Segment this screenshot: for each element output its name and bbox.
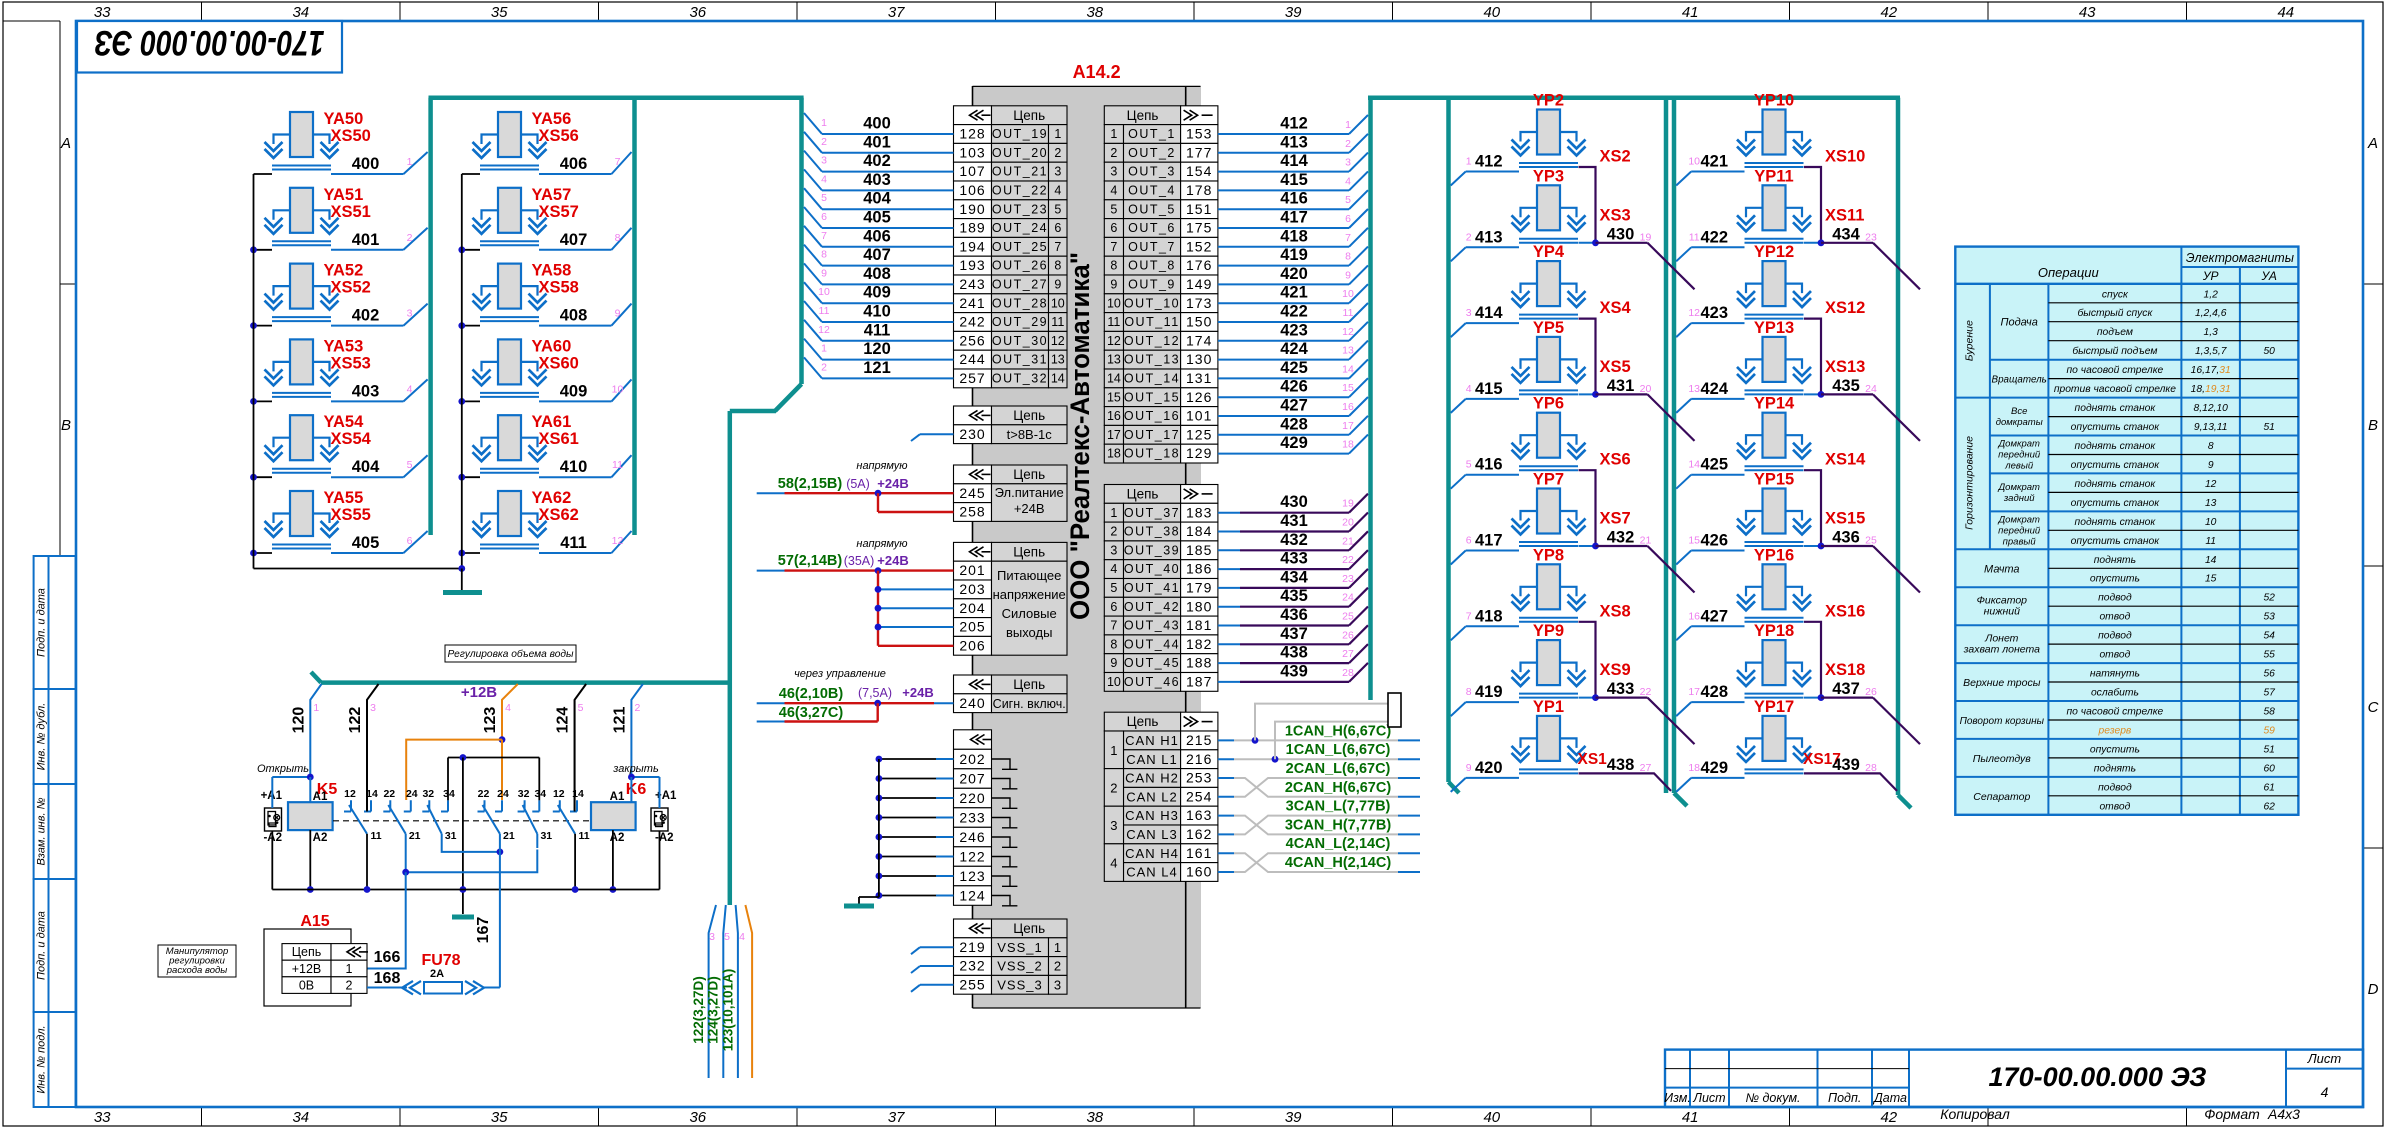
svg-text:35: 35	[491, 1109, 508, 1126]
svg-text:2: 2	[821, 136, 827, 148]
svg-text:37: 37	[888, 1109, 905, 1126]
svg-text:16,17,31: 16,17,31	[2191, 365, 2231, 376]
svg-text:10: 10	[818, 286, 830, 298]
svg-text:216: 216	[1186, 751, 1212, 767]
svg-text:Силовые: Силовые	[1002, 606, 1057, 621]
svg-text:205: 205	[959, 619, 985, 635]
svg-text:50: 50	[2263, 346, 2275, 357]
svg-text:1: 1	[1110, 127, 1117, 141]
svg-text:2: 2	[1110, 780, 1117, 795]
svg-text:244: 244	[959, 351, 985, 367]
svg-text:YP9: YP9	[1533, 622, 1564, 640]
svg-text:130: 130	[1186, 351, 1212, 367]
svg-text:XS13: XS13	[1825, 358, 1865, 376]
svg-text:3: 3	[1054, 977, 1061, 992]
svg-text:опустить станок: опустить станок	[2071, 498, 2161, 509]
svg-text:417: 417	[1280, 209, 1308, 227]
svg-text:11: 11	[1107, 315, 1120, 329]
svg-text:выходы: выходы	[1006, 625, 1052, 640]
svg-text:Формат: Формат	[2204, 1106, 2260, 1122]
svg-text:быстрый подъем: быстрый подъем	[2072, 345, 2157, 357]
svg-text:YA61: YA61	[532, 413, 572, 431]
svg-text:CAN H1: CAN H1	[1125, 733, 1179, 748]
svg-text:424: 424	[1280, 340, 1308, 358]
svg-text:44: 44	[2277, 4, 2294, 21]
svg-text:Цепь: Цепь	[1013, 921, 1045, 936]
svg-text:166: 166	[374, 949, 401, 966]
svg-text:186: 186	[1186, 561, 1212, 577]
svg-text:OUT_39: OUT_39	[1124, 543, 1180, 557]
svg-text:125: 125	[1186, 426, 1212, 442]
svg-text:401: 401	[863, 133, 891, 151]
svg-text:12: 12	[1107, 334, 1121, 348]
svg-text:8: 8	[821, 249, 827, 261]
svg-text:YP7: YP7	[1533, 471, 1564, 489]
svg-text:3: 3	[821, 155, 827, 167]
svg-text:7: 7	[1054, 240, 1061, 254]
svg-text:9: 9	[1466, 762, 1472, 774]
svg-text:4: 4	[1466, 383, 1472, 395]
svg-text:122: 122	[347, 707, 364, 734]
svg-text:Поворот корзины: Поворот корзины	[1960, 716, 2045, 727]
svg-text:поднять станок: поднять станок	[2075, 517, 2157, 528]
svg-text:YA62: YA62	[532, 489, 572, 507]
svg-text:опустить: опустить	[2090, 574, 2140, 585]
svg-text:11: 11	[612, 459, 623, 471]
svg-text:419: 419	[1475, 683, 1503, 701]
svg-text:408: 408	[560, 307, 588, 325]
svg-text:Цепь: Цепь	[1013, 677, 1045, 692]
svg-text:OUT_30: OUT_30	[992, 334, 1048, 348]
svg-text:1: 1	[1345, 119, 1351, 131]
svg-text:4: 4	[505, 702, 511, 714]
svg-text:Вращатель: Вращатель	[1992, 375, 2047, 386]
svg-text:OUT_5: OUT_5	[1128, 202, 1176, 216]
svg-text:OUT_26: OUT_26	[992, 259, 1048, 273]
svg-text:захват лонета: захват лонета	[1963, 644, 2040, 656]
svg-text:4: 4	[1110, 562, 1117, 576]
svg-text:Питающее: Питающее	[997, 568, 1061, 583]
svg-text:120: 120	[863, 340, 891, 358]
svg-text:Лист: Лист	[1692, 1091, 1725, 1105]
svg-text:149: 149	[1186, 276, 1212, 292]
svg-text:7: 7	[1110, 619, 1117, 633]
svg-text:6: 6	[1110, 600, 1117, 614]
svg-text:419: 419	[1280, 246, 1308, 264]
svg-text:436: 436	[1280, 606, 1308, 624]
svg-text:(5А): (5А)	[846, 477, 870, 491]
svg-text:422: 422	[1700, 228, 1728, 246]
svg-text:УР: УР	[2202, 269, 2219, 283]
svg-text:189: 189	[959, 220, 985, 236]
svg-text:OUT_27: OUT_27	[992, 278, 1048, 292]
svg-text:432: 432	[1607, 529, 1635, 547]
svg-text:2: 2	[821, 361, 827, 373]
svg-text:опустить станок: опустить станок	[2071, 536, 2161, 547]
svg-text:54: 54	[2263, 631, 2275, 642]
svg-text:Копировал: Копировал	[1940, 1106, 2010, 1122]
svg-text:416: 416	[1280, 190, 1308, 208]
svg-text:YA54: YA54	[324, 413, 365, 431]
svg-text:+A1: +A1	[655, 790, 677, 802]
svg-text:420: 420	[1475, 759, 1503, 777]
svg-text:OUT_19: OUT_19	[992, 127, 1048, 141]
svg-text:Домкрат: Домкрат	[1997, 482, 2040, 493]
svg-text:передний: передний	[1998, 525, 2041, 536]
svg-text:правый: правый	[2003, 536, 2037, 547]
svg-text:OUT_10: OUT_10	[1124, 296, 1180, 310]
svg-text:32: 32	[422, 788, 434, 800]
svg-text:XS54: XS54	[331, 430, 372, 448]
svg-text:150: 150	[1186, 314, 1212, 330]
svg-text:против часовой стрелке: против часовой стрелке	[2054, 384, 2176, 395]
svg-text:24: 24	[497, 788, 509, 800]
svg-text:170-00.00.000 ЭЗ: 170-00.00.000 ЭЗ	[1989, 1062, 2207, 1092]
svg-text:253: 253	[1186, 770, 1212, 786]
svg-text:178: 178	[1186, 182, 1212, 198]
svg-text:3CAN_L(7,77В): 3CAN_L(7,77В)	[1286, 799, 1391, 815]
svg-text:123: 123	[959, 868, 985, 884]
svg-text:YP8: YP8	[1533, 546, 1564, 564]
svg-text:передний: передний	[1998, 450, 2041, 461]
svg-text:183: 183	[1186, 504, 1212, 520]
svg-text:YA57: YA57	[532, 186, 572, 204]
svg-text:11: 11	[819, 305, 830, 317]
svg-text:22: 22	[1342, 554, 1354, 566]
svg-text:22: 22	[383, 788, 395, 800]
svg-text:XS51: XS51	[331, 203, 371, 221]
svg-text:427: 427	[1280, 397, 1308, 415]
svg-text:37: 37	[888, 4, 905, 21]
svg-text:38: 38	[1086, 4, 1103, 21]
svg-text:6: 6	[1466, 535, 1472, 547]
svg-text:YP3: YP3	[1533, 167, 1564, 185]
svg-text:31: 31	[445, 830, 457, 842]
svg-text:нижний: нижний	[1984, 606, 2020, 618]
svg-text:107: 107	[959, 163, 985, 179]
svg-text:K6: K6	[626, 781, 647, 798]
svg-text:11: 11	[1689, 231, 1700, 243]
svg-text:51: 51	[2263, 744, 2274, 755]
svg-text:431: 431	[1280, 512, 1308, 530]
svg-text:204: 204	[959, 600, 985, 616]
svg-text:27: 27	[1342, 648, 1354, 660]
svg-text:YA56: YA56	[532, 110, 572, 128]
svg-text:3: 3	[1110, 818, 1117, 833]
svg-text:+24В: +24В	[902, 685, 933, 700]
svg-text:254: 254	[1186, 788, 1212, 804]
svg-text:51: 51	[2263, 422, 2274, 433]
svg-text:152: 152	[1186, 238, 1212, 254]
svg-text:3: 3	[1466, 307, 1472, 319]
svg-text:опустить станок: опустить станок	[2071, 460, 2161, 471]
svg-text:OUT_9: OUT_9	[1128, 278, 1176, 292]
svg-text:отвод: отвод	[2099, 801, 2130, 812]
svg-text:28: 28	[1865, 762, 1877, 774]
svg-text:122: 122	[959, 848, 985, 864]
svg-text:VSS_3: VSS_3	[997, 977, 1042, 992]
svg-text:Цепь: Цепь	[292, 945, 321, 959]
svg-text:12: 12	[1342, 326, 1354, 338]
svg-text:D: D	[2368, 981, 2379, 998]
svg-text:XS2: XS2	[1600, 148, 1631, 166]
svg-text:243: 243	[959, 276, 985, 292]
svg-text:Лист: Лист	[2307, 1051, 2342, 1066]
svg-text:быстрый спуск: быстрый спуск	[2077, 307, 2153, 319]
svg-text:CAN H3: CAN H3	[1125, 808, 1179, 823]
svg-text:XS7: XS7	[1600, 510, 1631, 528]
svg-text:по часовой стрелке: по часовой стрелке	[2067, 707, 2164, 718]
svg-text:XS6: XS6	[1600, 451, 1631, 469]
svg-text:2: 2	[1466, 231, 1472, 243]
svg-text:245: 245	[959, 485, 985, 501]
svg-text:22: 22	[1640, 686, 1652, 698]
svg-text:натянуть: натянуть	[2090, 669, 2140, 680]
svg-text:409: 409	[863, 284, 891, 302]
svg-text:Верхние тросы: Верхние тросы	[1963, 677, 2041, 689]
svg-text:+24В: +24В	[877, 553, 908, 568]
svg-text:8: 8	[1110, 637, 1117, 651]
svg-text:YP1: YP1	[1533, 698, 1564, 716]
svg-text:отвод: отвод	[2099, 650, 2130, 661]
svg-text:поднять станок: поднять станок	[2075, 403, 2157, 414]
svg-text:411: 411	[560, 534, 587, 552]
svg-text:21: 21	[1342, 535, 1354, 547]
svg-text:22: 22	[478, 788, 490, 800]
svg-text:9,13,11: 9,13,11	[2194, 422, 2228, 433]
svg-text:5: 5	[724, 931, 730, 943]
svg-text:1,3,5,7: 1,3,5,7	[2195, 346, 2228, 357]
svg-text:2: 2	[1110, 146, 1117, 160]
svg-text:11: 11	[2205, 536, 2216, 547]
svg-text:62: 62	[2263, 801, 2275, 812]
svg-text:36: 36	[689, 4, 706, 21]
svg-text:24: 24	[1342, 592, 1354, 604]
svg-text:417: 417	[1475, 532, 1503, 550]
svg-text:1: 1	[1466, 156, 1472, 168]
svg-text:Сепаратор: Сепаратор	[1973, 791, 2030, 803]
svg-text:OUT_1: OUT_1	[1128, 127, 1176, 141]
svg-text:193: 193	[959, 257, 985, 273]
svg-text:CAN H4: CAN H4	[1125, 846, 1179, 861]
svg-text:57(2,14В): 57(2,14В)	[778, 553, 843, 569]
svg-text:поднять: поднять	[2094, 763, 2136, 774]
svg-text:256: 256	[959, 332, 985, 348]
svg-text:отвод: отвод	[2099, 612, 2130, 623]
svg-text:XS53: XS53	[331, 354, 371, 372]
svg-text:412: 412	[1280, 115, 1308, 133]
svg-text:YA53: YA53	[324, 337, 364, 355]
svg-text:173: 173	[1186, 295, 1212, 311]
svg-text:46(3,27С): 46(3,27С)	[779, 705, 844, 721]
svg-text:2: 2	[1054, 146, 1061, 160]
svg-text:OUT_12: OUT_12	[1124, 334, 1180, 348]
svg-text:3: 3	[1110, 165, 1117, 179]
svg-text:12: 12	[818, 324, 830, 336]
svg-text:404: 404	[863, 190, 891, 208]
svg-text:опустить: опустить	[2090, 744, 2140, 755]
svg-text:Цепь: Цепь	[1013, 108, 1045, 123]
svg-text:18,19,31: 18,19,31	[2191, 384, 2231, 395]
svg-text:101: 101	[1186, 408, 1212, 424]
svg-text:123(10,101A): 123(10,101A)	[720, 969, 735, 1052]
svg-text:XS11: XS11	[1825, 206, 1864, 224]
svg-text:1: 1	[346, 962, 353, 976]
svg-text:XS61: XS61	[539, 430, 579, 448]
svg-text:0В: 0В	[299, 978, 314, 992]
svg-text:3: 3	[709, 931, 715, 943]
svg-text:28: 28	[1342, 667, 1354, 679]
svg-text:YA55: YA55	[324, 489, 364, 507]
svg-text:Открыть: Открыть	[257, 763, 309, 775]
svg-text:+24В: +24В	[877, 476, 908, 491]
svg-text:257: 257	[959, 370, 985, 386]
svg-text:5: 5	[1110, 581, 1117, 595]
svg-text:2: 2	[634, 702, 640, 714]
svg-text:10: 10	[1342, 288, 1354, 300]
svg-text:160: 160	[1186, 864, 1212, 880]
svg-text:185: 185	[1186, 542, 1212, 558]
svg-text:59: 59	[2263, 726, 2275, 737]
svg-text:122(3,27D): 122(3,27D)	[691, 976, 706, 1044]
svg-text:3: 3	[1054, 165, 1061, 179]
svg-text:2А: 2А	[430, 968, 444, 980]
svg-text:246: 246	[959, 829, 985, 845]
svg-text:через управление: через управление	[794, 668, 886, 680]
svg-text:124: 124	[555, 707, 572, 734]
svg-text:232: 232	[959, 958, 985, 974]
svg-text:Бурение: Бурение	[1963, 320, 1975, 361]
svg-text:OUT_31: OUT_31	[992, 353, 1048, 367]
svg-text:1: 1	[1054, 940, 1061, 955]
svg-text:123: 123	[482, 707, 499, 734]
svg-text:24: 24	[406, 788, 418, 800]
svg-text:XS55: XS55	[331, 506, 371, 524]
svg-text:407: 407	[863, 246, 891, 264]
svg-text:431: 431	[1607, 377, 1635, 395]
svg-text:C: C	[2368, 699, 2379, 716]
svg-text:413: 413	[1280, 133, 1308, 151]
svg-text:13: 13	[2205, 498, 2217, 509]
svg-text:поднять: поднять	[2094, 555, 2136, 566]
svg-text:№ докум.: № докум.	[1745, 1091, 1800, 1105]
svg-text:24: 24	[1865, 383, 1877, 395]
svg-text:410: 410	[863, 303, 891, 321]
svg-text:Цепь: Цепь	[1013, 408, 1045, 423]
svg-text:430: 430	[1280, 493, 1308, 511]
svg-text:YP16: YP16	[1754, 546, 1794, 564]
svg-text:31: 31	[540, 830, 552, 842]
svg-text:36: 36	[689, 1109, 706, 1126]
svg-text:Цепь: Цепь	[1013, 544, 1045, 559]
svg-text:153: 153	[1186, 126, 1212, 142]
svg-text:OUT_21: OUT_21	[992, 165, 1048, 179]
svg-text:1: 1	[821, 117, 827, 129]
svg-text:1: 1	[821, 343, 827, 355]
svg-text:174: 174	[1186, 332, 1212, 348]
svg-text:A2: A2	[313, 832, 328, 844]
svg-text:A: A	[2367, 135, 2378, 152]
svg-text:OUT_28: OUT_28	[992, 296, 1048, 310]
svg-text:2: 2	[1110, 525, 1117, 539]
svg-text:OUT_13: OUT_13	[1124, 353, 1180, 367]
svg-text:2: 2	[346, 978, 353, 992]
svg-text:106: 106	[959, 182, 985, 198]
svg-text:435: 435	[1280, 587, 1308, 605]
svg-text:10: 10	[1107, 296, 1121, 310]
svg-text:5: 5	[407, 459, 413, 471]
svg-text:179: 179	[1186, 580, 1212, 596]
svg-text:10: 10	[1107, 675, 1121, 689]
svg-text:7: 7	[1345, 232, 1351, 244]
svg-text:(35А): (35А)	[844, 554, 875, 568]
svg-text:XS8: XS8	[1600, 602, 1631, 620]
svg-text:103: 103	[959, 144, 985, 160]
svg-text:VSS_2: VSS_2	[997, 959, 1042, 974]
svg-text:Подп.: Подп.	[1828, 1091, 1861, 1105]
svg-text:расхода воды: расхода воды	[166, 965, 227, 976]
svg-text:OUT_8: OUT_8	[1128, 259, 1176, 273]
svg-text:182: 182	[1186, 636, 1212, 652]
svg-text:подвод: подвод	[2098, 631, 2132, 642]
svg-text:XS18: XS18	[1825, 661, 1865, 679]
svg-text:7: 7	[1110, 240, 1117, 254]
svg-text:Цепь: Цепь	[1127, 487, 1159, 502]
svg-text:402: 402	[352, 307, 380, 325]
svg-text:YP13: YP13	[1754, 319, 1794, 337]
svg-text:CAN H2: CAN H2	[1125, 771, 1179, 786]
svg-text:415: 415	[1280, 171, 1308, 189]
svg-text:188: 188	[1186, 655, 1212, 671]
svg-text:1: 1	[1110, 743, 1117, 758]
svg-text:406: 406	[863, 227, 891, 245]
svg-text:402: 402	[863, 152, 891, 170]
svg-text:126: 126	[1186, 389, 1212, 405]
svg-text:20: 20	[1342, 517, 1354, 529]
svg-text:427: 427	[1700, 607, 1728, 625]
svg-text:YA58: YA58	[532, 262, 572, 280]
svg-text:Инв. № подл.: Инв. № подл.	[36, 1025, 48, 1093]
svg-text:219: 219	[959, 939, 985, 955]
svg-text:426: 426	[1280, 378, 1308, 396]
svg-text:XS3: XS3	[1600, 206, 1631, 224]
svg-text:423: 423	[1280, 321, 1308, 339]
svg-text:закрыть: закрыть	[612, 763, 659, 775]
svg-text:Подп. и дата: Подп. и дата	[36, 911, 48, 980]
svg-text:Сигн. включ.: Сигн. включ.	[993, 697, 1066, 711]
svg-text:OUT_14: OUT_14	[1124, 372, 1180, 386]
svg-text:429: 429	[1280, 434, 1308, 452]
svg-text:OUT_38: OUT_38	[1124, 525, 1180, 539]
svg-text:35: 35	[491, 4, 508, 21]
svg-text:YA60: YA60	[532, 337, 572, 355]
svg-text:9: 9	[615, 308, 621, 320]
svg-text:6: 6	[1054, 221, 1061, 235]
svg-text:3: 3	[1110, 543, 1117, 557]
svg-text:6: 6	[407, 535, 413, 547]
svg-text:39: 39	[1285, 4, 1302, 21]
svg-text:XS4: XS4	[1600, 299, 1632, 317]
svg-text:Горизонтирование: Горизонтирование	[1963, 436, 1975, 530]
svg-text:5: 5	[1054, 202, 1061, 216]
svg-text:OUT_7: OUT_7	[1128, 240, 1176, 254]
svg-text:435: 435	[1832, 377, 1860, 395]
svg-text:OUT_46: OUT_46	[1124, 675, 1180, 689]
svg-text:1: 1	[1110, 506, 1117, 520]
svg-text:201: 201	[959, 562, 985, 578]
svg-text:258: 258	[959, 504, 985, 520]
svg-text:8: 8	[1110, 259, 1117, 273]
